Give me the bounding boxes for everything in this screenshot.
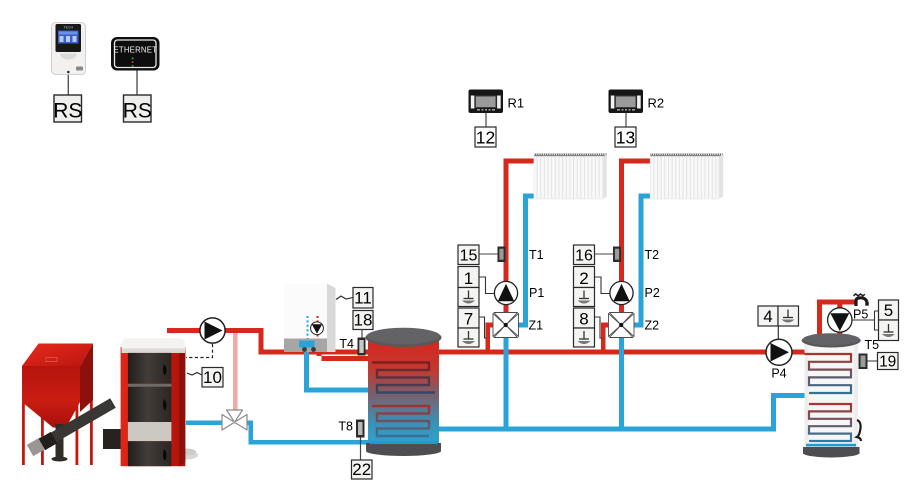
wire: faded red drop to 3-way valve [233, 333, 238, 411]
box 5 with ground [852, 300, 899, 341]
wire: blue from 3-way valve to buffer bottom [247, 421, 369, 445]
room thermostat R1 [469, 90, 525, 128]
svg-text:RS: RS [53, 100, 82, 123]
svg-text:16: 16 [575, 248, 593, 265]
sensor T8 [338, 420, 364, 461]
RS box (controller) [53, 95, 82, 123]
svg-text:T1: T1 [529, 248, 544, 262]
buffer tank [366, 328, 442, 456]
DHW upper coil [805, 354, 852, 393]
pump P5 [828, 308, 869, 333]
box 22 [352, 460, 373, 479]
box 11 [353, 288, 373, 309]
wire: gas boiler red to buffer [317, 345, 371, 361]
wire: blue riser circuit 1 [523, 196, 528, 328]
svg-text:P4: P4 [771, 367, 786, 381]
gas boiler (wall hung) [284, 284, 336, 353]
box 10 [187, 368, 223, 388]
box 7 with ground [458, 308, 479, 328]
wire: blue drop below Z1 [504, 335, 509, 432]
svg-text:5: 5 [884, 301, 893, 320]
box 2 with ground [574, 267, 595, 288]
room controller (TECH) [52, 23, 86, 96]
box 12 [475, 127, 496, 148]
wire: red riser circuit 1 [504, 161, 509, 337]
buffer tank upper coil [372, 363, 435, 393]
circuit 1 controls [458, 245, 544, 347]
svg-text:T2: T2 [645, 248, 660, 262]
wire: DHW red circulation riser and faucet line [817, 300, 856, 341]
wire: blue drop below Z2 [619, 335, 624, 432]
wire: red riser circuit 2 [619, 161, 624, 337]
svg-text:RS: RS [123, 100, 152, 123]
wire: gas boiler blue to buffer [304, 345, 368, 393]
fuel hopper [22, 344, 93, 466]
feeder auger [30, 403, 196, 462]
3-way valve near boiler [222, 410, 247, 430]
wire: blue riser circuit 2 [639, 196, 644, 328]
DHW lower coil [809, 404, 851, 441]
sensor T5 [859, 338, 880, 369]
svg-text:P1: P1 [529, 286, 544, 300]
svg-text:8: 8 [579, 310, 588, 329]
box 8 with ground [574, 308, 595, 328]
solid fuel boiler [121, 338, 198, 466]
wire: blue return boiler to 3-way valve [186, 421, 223, 426]
svg-text:1: 1 [464, 269, 473, 288]
wire: main red supply line to P4 / DHW tank [259, 350, 807, 355]
svg-text:Z1: Z1 [529, 319, 544, 333]
box 4 with ground [758, 306, 799, 340]
valve Z2 [609, 313, 635, 338]
svg-text:2: 2 [579, 269, 588, 288]
pump P4 [766, 339, 792, 380]
wire: red elbow left of Z1 [486, 323, 495, 352]
gas boiler internal pump [311, 322, 324, 335]
heater bracket on DHW tank [857, 420, 861, 441]
svg-text:18: 18 [354, 311, 373, 330]
sensor T1 [498, 247, 506, 263]
DHW tank [802, 333, 861, 457]
svg-text:12: 12 [476, 128, 495, 148]
svg-text:P5: P5 [853, 308, 868, 322]
svg-text:7: 7 [464, 310, 473, 329]
circuit 2 controls [574, 245, 660, 347]
wire: red elbow left of Z2 [601, 323, 610, 352]
valve Z1 [493, 313, 519, 338]
room thermostat R2 [609, 90, 665, 128]
buffer tank lower coil [372, 406, 429, 436]
wire: red supply from boiler to corner [167, 328, 264, 350]
box 16 [574, 245, 595, 265]
svg-text:R2: R2 [648, 96, 665, 111]
svg-text:4: 4 [763, 307, 772, 326]
svg-text:13: 13 [616, 128, 635, 148]
squiggle gas boiler to box 11 [336, 296, 353, 300]
pump P2 [610, 281, 633, 304]
svg-text:Z2: Z2 [645, 319, 660, 333]
sensor T4 [339, 337, 365, 356]
ethernet module [111, 37, 160, 95]
faucet [854, 294, 869, 306]
dashed control line pump to boiler [186, 344, 213, 358]
svg-text:15: 15 [460, 248, 478, 265]
box 19 [878, 353, 899, 371]
svg-text:T8: T8 [338, 420, 353, 434]
svg-text:TECH: TECH [64, 26, 74, 30]
svg-text:ETHERNET: ETHERNET [113, 46, 157, 55]
svg-text:T4: T4 [339, 337, 354, 351]
box 13 [615, 127, 636, 148]
svg-text:10: 10 [203, 368, 222, 387]
svg-text:11: 11 [354, 289, 372, 308]
svg-text:22: 22 [352, 460, 371, 479]
wire: main blue return buffer to DHW [438, 393, 805, 427]
pump P1 [494, 281, 517, 304]
radiator 1 [534, 153, 607, 199]
box 18 [353, 311, 373, 339]
RS box (ethernet) [123, 95, 152, 123]
box 15 [458, 245, 479, 265]
svg-text:P2: P2 [645, 286, 660, 300]
svg-text:R1: R1 [508, 96, 525, 111]
boiler pump (circulation) [200, 318, 225, 343]
sensor T2 [613, 247, 621, 263]
radiator 2 [650, 153, 723, 199]
svg-text:19: 19 [879, 354, 896, 371]
box 1 with ground [458, 267, 479, 288]
svg-text:T5: T5 [865, 338, 880, 352]
